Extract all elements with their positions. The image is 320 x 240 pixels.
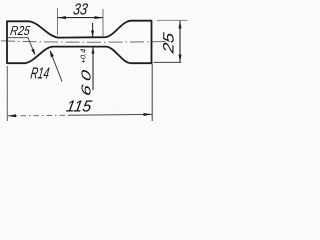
dim 115 ext line left [6, 66, 8, 121]
dim 25 line [179, 21, 181, 63]
specimen outline [7, 21, 152, 64]
dim 115 arrow left [8, 114, 17, 117]
dim 25 rotated text [161, 31, 178, 55]
label R25 leader shelf [7, 38, 34, 54]
dim 33 text [72, 1, 89, 19]
dim 6 line top [92, 23, 94, 37]
dim 33 ext line left [57, 8, 59, 35]
dim 33 arrow left [58, 16, 67, 19]
dim 25 ext line bottom [154, 61, 182, 63]
dim 115 text [65, 98, 93, 116]
dim 25 ext line top [157, 19, 188, 21]
dim 6 arrow top (points down) [91, 31, 94, 38]
dim 6 arrow bottom (points up) [92, 47, 95, 54]
label R14 leader [50, 51, 62, 82]
dim 115 ext line right [151, 64, 153, 122]
dim 25 arrow bottom [179, 55, 182, 63]
dim 25 arrow top [179, 21, 182, 29]
label R25 arrowhead [31, 49, 35, 56]
svg-text:+0.4: +0.4 [79, 49, 88, 64]
centerline [1, 41, 172, 42]
svg-text:R14: R14 [29, 65, 50, 83]
label R25 text [9, 23, 31, 38]
label R14 arrowhead [50, 50, 54, 57]
dim 6 nominal rotated text [79, 69, 93, 97]
dim 33 arrow right [95, 16, 104, 19]
dim 6 line bottom [92, 47, 94, 90]
dim 33 line [58, 17, 104, 19]
dim 115 arrow right [144, 113, 153, 116]
svg-text:25: 25 [161, 31, 178, 55]
svg-text:115: 115 [65, 98, 93, 116]
svg-text:R25: R25 [9, 23, 31, 38]
dim 33 ext line right [102, 9, 104, 37]
dim 115 line [8, 114, 69, 117]
label R14 text [29, 65, 50, 83]
dim 6 tolerance +0.4 rotated text [79, 49, 88, 64]
